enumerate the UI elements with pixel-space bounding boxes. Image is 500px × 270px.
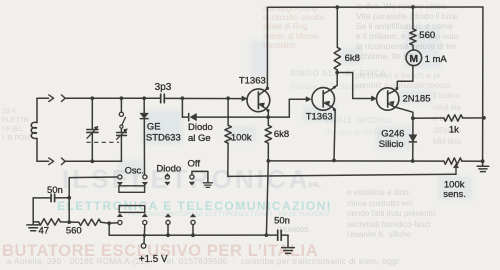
svg-text:50n: 50n [274,216,290,227]
faint print bleed-through background texts [62,164,310,195]
svg-text:6k8: 6k8 [345,53,360,64]
wire A bottom (tank lower wire) [65,160,122,162]
Q1 base bar [257,92,259,109]
svg-text:47: 47 [39,226,50,237]
label al Ge [188,133,211,144]
wire: right vertical [482,7,484,161]
label Silicio [379,139,404,150]
svg-text:1k: 1k [449,124,459,135]
transistor Q2 T1363 (circle) [312,88,335,111]
resistor 6k8 (Q2 collector load) [334,7,340,72]
node: G246 on supply rail [411,159,415,163]
svg-text:560: 560 [419,30,435,41]
svg-text:STD633: STD633 [146,133,181,144]
label 100k (sens pot) [444,180,465,191]
switch pole2 contact 4 [190,214,195,236]
label STD633 [146,133,181,144]
node: GE diode on wire A [142,96,146,100]
label 3p3 [155,82,172,93]
wire: riser to switch pole1 [68,178,70,223]
label 2N185 [403,93,431,104]
switch pole1 contact 4 (off) [189,171,208,185]
resistor 6k8 (Q1 emitter load) [265,117,271,161]
node: contact4 on battery rail [191,233,195,237]
switch pole2 slider bracket [119,206,145,213]
node: C2 branch on wire A [120,96,124,100]
svg-text:GE: GE [147,121,161,132]
switch pole2 contact 1 [109,214,122,225]
label 50n (right) [274,216,290,227]
label 47 [39,226,50,237]
node: emitter line joins battery rail [265,233,269,237]
label Off [188,158,201,169]
svg-text:T1363: T1363 [239,76,266,87]
diode GE STD633 (vertical) [140,98,149,174]
label T1363 (first) [239,76,266,87]
wire: battery rail [109,234,266,236]
svg-text:+1.5 V: +1.5 V [139,254,168,265]
Q1 collector lead [258,7,269,95]
capacitor 3p3 [161,94,165,103]
wire: pot wiper to 100k bottom [228,174,456,176]
node: Q1 emitter junction on wire B [266,115,270,119]
switch pole1 contact 1 (common) [69,175,122,186]
Q3 emitter lead (PNP arrow) [388,101,413,118]
label Diodo (position) [156,164,181,175]
Q3 base lead arrow [371,96,376,101]
node: C1 bottom on tank wire [90,159,94,163]
resistor 560 (meter series) [410,7,416,50]
node: Q2 emitter on supply rail [332,159,336,163]
meter M letter [409,53,418,65]
battery terminal +1.5V [141,244,146,249]
ground (off position) [203,183,212,188]
osc switch blade over C2 [119,98,125,128]
svg-text:3p3: 3p3 [155,82,172,93]
svg-text:G246: G246 [381,128,404,139]
label 6k8 (first) [274,129,289,140]
svg-text:2N185: 2N185 [403,93,431,104]
node: C1 top on wire A [90,96,94,100]
wire: supply rail (+ line) [268,160,444,162]
wire: Q2 collector to Q3 base [337,73,371,99]
Q3 base bar [387,91,389,107]
wire: top supply rail [267,6,483,8]
node: Q2 collector junction [335,71,339,75]
node: Ge diode branch on wire A [181,96,185,100]
node: battery rail left riser [107,221,111,235]
node: 560 on top rail [411,5,415,9]
switch pole2 contact 2 (battery) [142,214,147,244]
svg-text:al Ge: al Ge [188,133,211,144]
switch pole1 contact 2 (osc) [142,175,147,186]
ground (bypass 50n) [282,248,295,254]
svg-text:Diodo: Diodo [156,164,181,175]
faint scan chroma halos behind labels [142,110,182,144]
wire A (top signal wire) [65,97,247,99]
node: 47/560 junction [67,220,71,224]
input connector (top, plug arrow) [37,95,65,102]
diode 'Diodo al Ge' branch (wire B) [182,98,306,121]
Q1 base lead arrow [242,96,247,101]
diode G246 Silicio [409,118,417,161]
resistor 560 (bottom) [69,219,109,225]
ground (right) [477,161,489,171]
label T1363 (second) [306,111,333,122]
transistor Q1 T1363 (circle) [247,89,270,112]
node: 50n to switch riser [67,196,71,200]
switch pole2 contact 3 [165,214,170,236]
label sens. [443,189,466,200]
label 100k [231,133,252,144]
resistor 47 [33,219,69,225]
variable capacitor C2 (osc) [117,128,128,161]
node: contact3 on battery rail [166,233,170,237]
label Osc. [125,165,144,175]
label +1.5 V [139,254,168,265]
svg-text:T1363: T1363 [306,111,333,122]
Q3 collector lead [388,66,413,95]
node: 6k8 on top rail [335,5,339,9]
svg-text:50n: 50n [47,185,63,196]
Q2 emitter lead (PNP arrow) [323,101,336,160]
Q2 base lead arrow [306,97,311,102]
capacitor 50n (bypass at rail end) [266,230,288,247]
label 560 [419,30,435,41]
resistor 100k (vertical from Q1 base node) [225,98,231,176]
node: right vertical to rail [481,159,485,163]
inductor L1 (tuning coil) [31,98,37,161]
Q1 emitter lead (PNP arrow) [258,103,269,117]
resistor 1k [413,115,484,121]
svg-text:Off: Off [188,158,201,169]
potentiometer 100k sens. (in rail) [444,158,483,174]
svg-text:560: 560 [66,226,82,237]
wire: battery feed vertical (x=268) [266,161,268,235]
switch pole1 contact 3 (diodo) [165,173,170,185]
label 560 (bottom) [66,226,82,237]
svg-text:sens.: sens. [443,189,466,200]
node: Q3 emitter junction [411,116,415,120]
node: Q1 base node on wire A [226,96,230,100]
node: rail left end (6k8/battery) [266,159,270,163]
Q2 collector lead [323,73,337,95]
label 6k8 (second) [345,53,360,64]
svg-text:Osc.: Osc. [125,165,144,175]
capacitor 50n (left) [33,194,69,222]
label 1 mA [425,54,448,65]
label 1k [449,124,459,135]
label Diodo [188,122,213,133]
label GE [147,121,161,132]
svg-text:M: M [409,53,418,65]
gang link (dashed) C1-C2 [87,141,120,143]
ground (bottom left) [27,222,40,231]
switch pole1 slider bracket [119,186,145,193]
label G246 [381,128,404,139]
svg-text:Diodo: Diodo [188,122,213,133]
svg-text:Silicio: Silicio [379,139,404,150]
meter M 1mA (circle) [406,50,422,66]
node: battery wire crosses rail [143,234,146,237]
Q2 base bar [322,91,324,107]
svg-text:1 mA: 1 mA [425,54,448,65]
node: 1k on right vertical [482,116,486,120]
svg-text:100k: 100k [231,133,252,144]
label 50n (left) [47,185,63,196]
input connector (bottom, plug arrow) [37,158,65,165]
transistor Q3 2N185 (circle) [377,88,399,110]
svg-text:6k8: 6k8 [274,129,289,140]
variable capacitor C1 (tuning) [87,98,98,161]
